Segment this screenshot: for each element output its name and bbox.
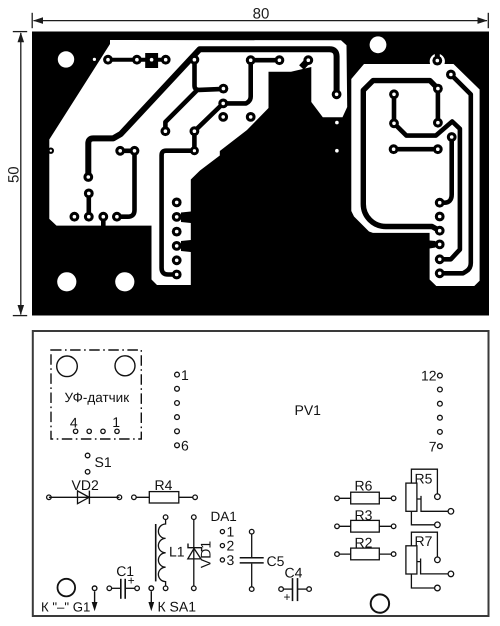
PCB board (copper layer, black) [32,32,489,316]
svg-text:4: 4 [70,415,78,431]
svg-text:S1: S1 [95,454,112,470]
wire: stub of pad (437.3,60.6) into top plane [435,52,440,61]
etched white region W4 (right) [351,64,479,286]
node К "-" G1 with arrow [92,586,98,611]
wire: from pad (194,60) to pad (223,88) and branch to pad (165,131) [165,54,223,132]
svg-text:50: 50 [6,166,23,183]
svg-text:3: 3 [227,552,235,568]
wire: long trace from pad A1 to via (337,94) [88,49,336,177]
pad drill holes [50,58,454,276]
zener diode VD1 [188,515,202,591]
svg-text:1: 1 [181,367,189,383]
board outline rectangle [33,331,489,616]
white opening around pad (437.3,60.6) [430,54,445,69]
svg-text:R5: R5 [415,470,433,486]
svg-text:7: 7 [429,439,437,455]
dimension 80 (top width dimension line) [32,6,488,29]
svg-text:6: 6 [181,437,189,453]
trimmer R7 [406,532,454,591]
wire: big loop trace in W4 from pad (437.9,88.6) to connector-B pad 3 [363,81,439,231]
wire: from pad (394,123) over peak to connector-B pad 5 [394,122,460,260]
svg-text:1: 1 [112,414,120,430]
bottom mounting hole [371,594,389,612]
svg-text:VD2: VD2 [72,477,99,493]
DA1 pins [220,530,224,563]
UV sensor dash-dot outline [51,350,141,439]
svg-text:К "–" G1: К "–" G1 [41,599,90,614]
mounting holes (white drills in plane) [57,36,386,291]
svg-text:PV1: PV1 [295,402,322,418]
svg-text:R6: R6 [355,478,373,494]
svg-text:R7: R7 [415,533,433,549]
UV sensor hole left [57,356,78,377]
svg-text:C5: C5 [267,553,285,569]
W4 pads [432,56,442,66]
mounting hole G1 area [58,579,76,597]
svg-text:12: 12 [421,368,437,384]
wire: link pads (393.6,149.2)-(437.8,149.2) [394,147,438,152]
small edge pad (50.8,150.7) [48,148,54,154]
svg-text:К SA1: К SA1 [158,598,197,614]
wire: from pad (450.9,74.5) down right edge to connector-B pad 6 [440,75,471,274]
connector pads 12-7 [438,373,443,448]
svg-text:DA1: DA1 [211,509,237,524]
etched white region W1 (left / central) [49,40,347,285]
wire: from pad (451.7,137) down to connector-B pad 1 [440,137,452,203]
connector pads 1-6 [175,372,180,447]
wire: pad pair link (120-134) and bend to pad (117,216.7) [117,151,135,217]
capacitor C5 [240,529,264,591]
dimension 50 (left height dimension line) [6,32,28,316]
pads (black annulus with drill hole) [48,55,457,280]
svg-text:+: + [128,574,135,588]
svg-text:80: 80 [253,6,270,23]
wire: plane stub of pad (308.3,60) [302,60,309,67]
via pad (336.6,94.3) [332,89,342,99]
svg-text:C4: C4 [285,565,303,581]
jumper square pad (151.9,59.8) [145,53,158,68]
trimmer R5 [406,469,454,527]
node К SA1 with arrow [148,586,154,611]
wire: link pads (437.9,88.6)-(437.9,122.7) [436,89,441,123]
pad row y=59.7 [103,55,113,65]
svg-text:VD1: VD1 [197,541,213,568]
wire: ground stub of pad (103.3,217) [101,217,106,227]
inductor L1 [156,515,168,591]
svg-text:R4: R4 [155,477,173,493]
pads center cluster [219,84,229,94]
wire: pad (88.8,193) to pad (88.8,217) [87,193,92,216]
wire: from pad (250.7,60) via pads (223,103),(194,131) to connector pad 6 [162,60,251,274]
wire: link pads (250.7,60)-(279.4,60) [251,58,280,63]
svg-text:УФ-датчик: УФ-датчик [64,390,129,405]
svg-text:+: + [284,590,291,604]
switch S1 pads [85,453,90,474]
svg-text:L1: L1 [169,544,185,560]
connector B pads column x=439.7 [435,198,445,208]
UV sensor pins [73,429,119,433]
UV sensor hole right [115,356,135,376]
wire: component row link (108-165.7) [108,58,166,62]
connector A pads column x=176.7 [172,198,182,208]
pad row y=216.7 [70,212,80,222]
wire: link pads (394,94.3)-(394,123.3) [392,94,397,123]
